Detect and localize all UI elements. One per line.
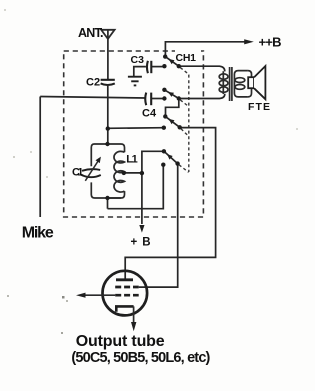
- svg-text:++B: ++B: [259, 34, 282, 49]
- svg-text:C4: C4: [142, 107, 157, 119]
- svg-text:C3: C3: [131, 54, 145, 66]
- svg-text:(50C5, 50B5, 50L6, etc): (50C5, 50B5, 50L6, etc): [71, 350, 210, 366]
- svg-text:L1: L1: [126, 154, 138, 166]
- svg-text:Mike: Mike: [22, 225, 54, 242]
- svg-text:ANT.: ANT.: [78, 26, 104, 40]
- svg-text:Output tube: Output tube: [76, 333, 165, 350]
- svg-text:FTE: FTE: [248, 101, 270, 113]
- svg-text:CH1: CH1: [176, 52, 197, 64]
- svg-text:C2: C2: [86, 77, 100, 89]
- svg-text:C1: C1: [72, 167, 84, 179]
- svg-text:+ B: + B: [131, 236, 151, 248]
